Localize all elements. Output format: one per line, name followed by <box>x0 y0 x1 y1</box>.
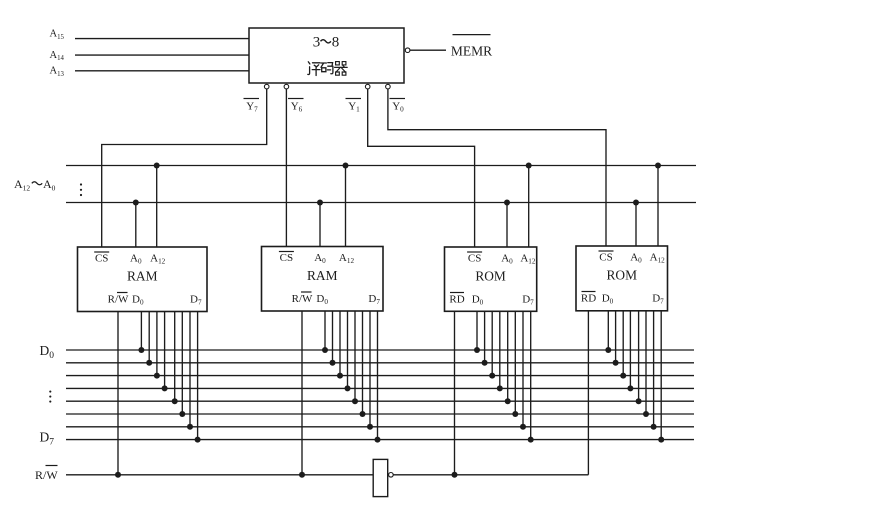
svg-text:RD: RD <box>449 294 464 306</box>
svg-text:RD: RD <box>581 293 596 305</box>
svg-text:R/W: R/W <box>35 468 58 482</box>
svg-text:CS: CS <box>599 252 612 264</box>
svg-text:CS: CS <box>95 253 108 265</box>
svg-text:ROM: ROM <box>475 269 506 284</box>
svg-text:CS: CS <box>468 253 481 265</box>
svg-text:MEMR: MEMR <box>451 44 492 59</box>
svg-text:3: 3 <box>313 35 321 51</box>
svg-text:R/W: R/W <box>108 294 129 306</box>
svg-text:RAM: RAM <box>127 269 158 284</box>
svg-text:CS: CS <box>280 252 293 264</box>
svg-text:R/W: R/W <box>292 293 313 305</box>
svg-text:8: 8 <box>332 35 340 51</box>
svg-text:ROM: ROM <box>606 268 637 283</box>
svg-text:RAM: RAM <box>307 268 338 283</box>
